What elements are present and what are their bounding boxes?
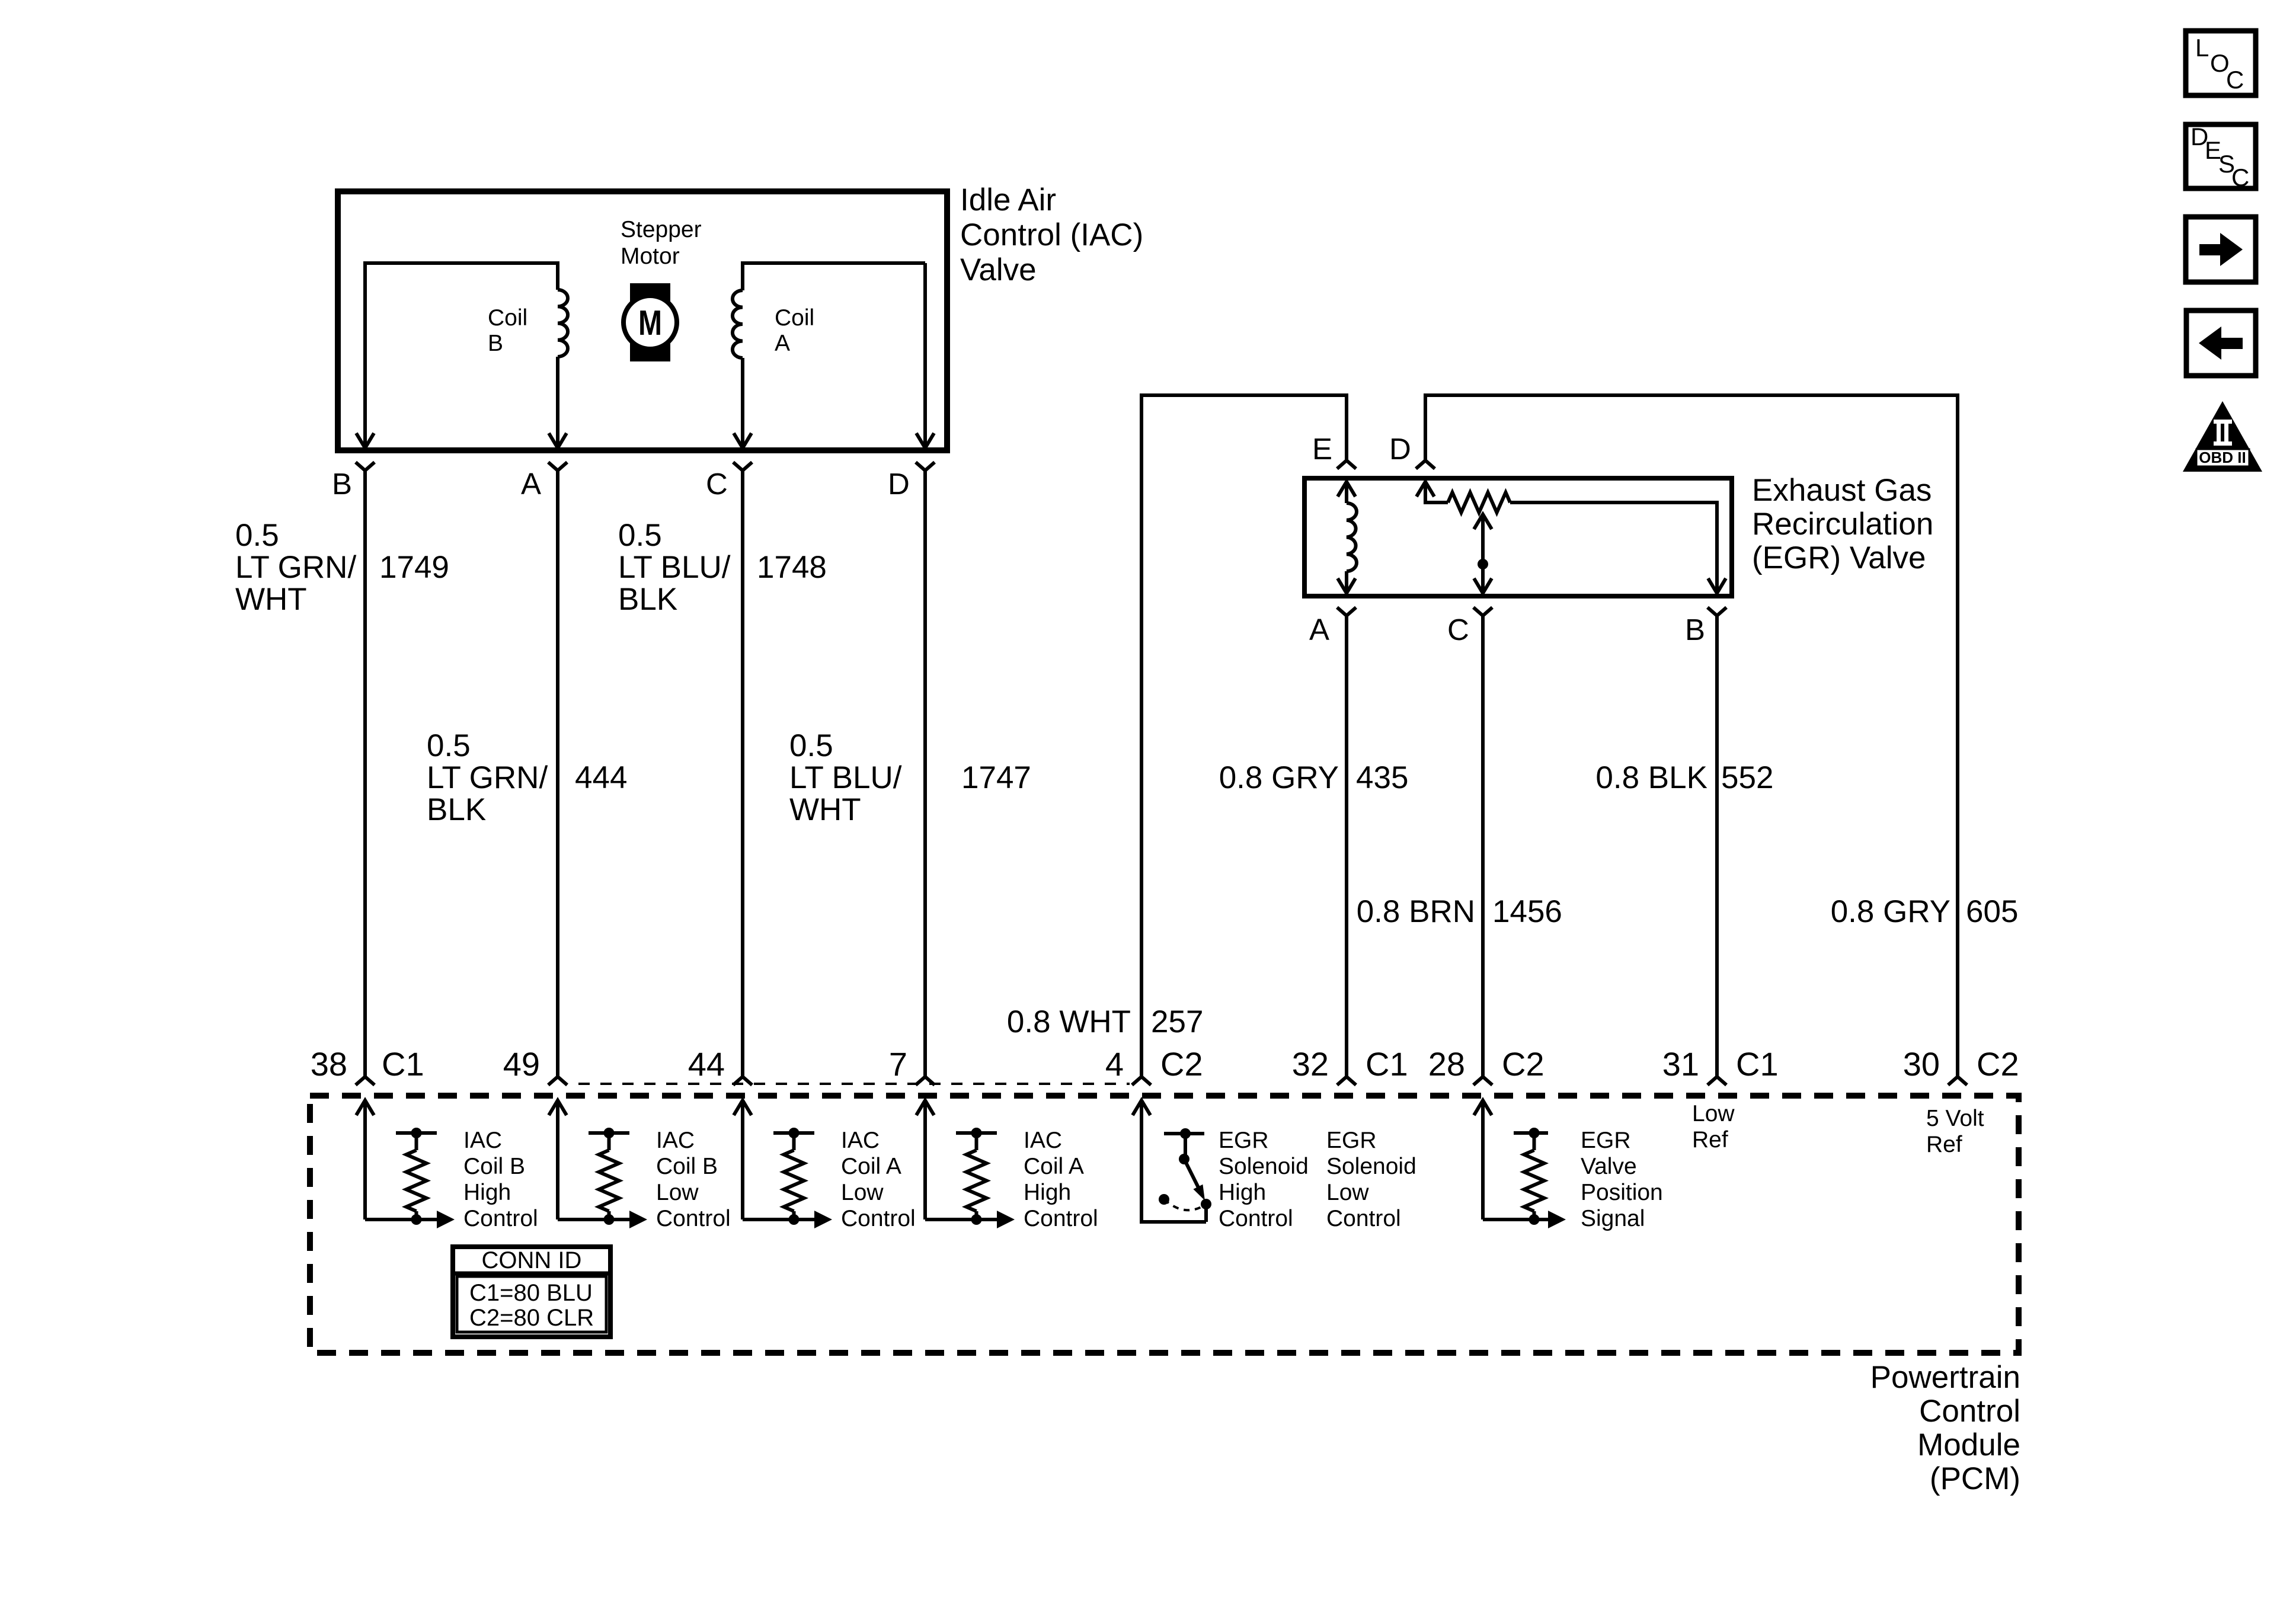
svg-text:0.5: 0.5 (427, 728, 471, 763)
svg-text:A: A (775, 331, 790, 356)
svg-text:Solenoid: Solenoid (1326, 1154, 1416, 1179)
svg-text:0.8 WHT: 0.8 WHT (1007, 1004, 1131, 1039)
stepper motor M symbol (623, 283, 677, 361)
svg-text:38: 38 (311, 1045, 347, 1083)
PCM dashed box (310, 1096, 2019, 1353)
back arrow icon box (2186, 311, 2256, 376)
junction dot (stub) (1180, 1128, 1191, 1139)
wire: wiper to pin C (1481, 514, 1485, 593)
svg-text:WHT: WHT (789, 792, 861, 827)
svg-text:30: 30 (1903, 1045, 1940, 1083)
wire label 0.5 LT BLU/WHT (circuit 1747) (789, 728, 902, 827)
svg-text:0.8 GRY: 0.8 GRY (1831, 894, 1950, 929)
svg-text:LT BLU/: LT BLU/ (618, 550, 731, 585)
wire from EGR pin A down to PCM (1345, 616, 1348, 1077)
IAC valve box (338, 191, 947, 450)
switch alternate contact dot (1159, 1194, 1169, 1205)
svg-text:Control: Control (841, 1206, 916, 1231)
svg-text:31: 31 (1662, 1045, 1699, 1083)
resistor (EGR valve position) (1514, 1131, 1548, 1135)
svg-text:1748: 1748 (757, 550, 827, 585)
svg-text:High: High (463, 1180, 511, 1205)
connector at PCM (C wire) (1473, 1077, 1483, 1085)
connector at PCM pin 4 (1132, 1077, 1141, 1085)
svg-text:C: C (2231, 164, 2249, 191)
junction dot top (IAC coil B high) (411, 1128, 422, 1138)
svg-text:0.8 GRY: 0.8 GRY (1219, 760, 1339, 795)
wire inside PCM from pin (923, 1100, 927, 1219)
svg-text:BLK: BLK (618, 582, 677, 617)
EGR valve box (1304, 478, 1732, 596)
wire: pin 30 vertical run (1956, 395, 1959, 1077)
svg-text:WHT: WHT (235, 582, 307, 617)
wire: D stem to potentiometer (1424, 482, 1427, 502)
svg-text:0.8 BRN: 0.8 BRN (1357, 894, 1475, 929)
svg-text:C2: C2 (1502, 1045, 1544, 1083)
svg-text:Control: Control (1326, 1206, 1401, 1231)
svg-text:Coil: Coil (488, 305, 527, 331)
wire A vertical run (556, 470, 559, 1077)
resistor (IAC coil A low) (773, 1131, 814, 1135)
svg-text:M: M (638, 303, 662, 343)
svg-text:Low: Low (1326, 1180, 1369, 1205)
wire from EGR pin C down to PCM (1481, 616, 1485, 1077)
wire label 0.5 LT BLU/BLK (circuit 1748) (618, 518, 731, 617)
svg-text:Powertrain: Powertrain (1870, 1360, 2020, 1395)
svg-text:A: A (1309, 613, 1329, 646)
connector at PCM pin (D wire) (916, 1077, 925, 1085)
svg-text:257: 257 (1151, 1004, 1203, 1039)
svg-text:Ref: Ref (1692, 1127, 1728, 1153)
svg-text:Control: Control (1919, 1394, 2020, 1429)
svg-text:IAC: IAC (463, 1128, 502, 1153)
svg-text:B: B (488, 331, 503, 356)
junction dot bottom (IAC coil B low) (604, 1214, 615, 1225)
label Idle Air Control (IAC) Valve (960, 183, 1143, 287)
svg-text:Valve: Valve (960, 252, 1037, 287)
switch pivot dot (1179, 1154, 1189, 1164)
connector EGR pin D (1416, 460, 1425, 469)
svg-text:EGR: EGR (1581, 1128, 1631, 1153)
wire: EGR pin D drop (1424, 395, 1427, 460)
wire: coil B loop top (363, 261, 559, 265)
label Coil A (775, 305, 814, 356)
label Coil B (488, 305, 527, 356)
output arrow (IAC coil B high) (437, 1211, 455, 1228)
svg-text:5 Volt: 5 Volt (1926, 1106, 1984, 1131)
switch arm with arrowhead (1184, 1159, 1198, 1188)
svg-text:(PCM): (PCM) (1930, 1461, 2020, 1496)
svg-text:C1: C1 (382, 1045, 424, 1083)
svg-text:1749: 1749 (379, 550, 449, 585)
junction dot bottom (IAC coil B high) (411, 1214, 422, 1225)
junction dot top (EGR valve position) (1529, 1128, 1540, 1138)
svg-text:Coil B: Coil B (463, 1154, 525, 1179)
svg-text:D: D (888, 467, 910, 501)
svg-text:BLK: BLK (427, 792, 486, 827)
DESC icon box (2186, 123, 2256, 191)
wire: coil A loop top (741, 261, 925, 265)
svg-text:4: 4 (1105, 1045, 1124, 1083)
svg-text:0.5: 0.5 (235, 518, 279, 553)
switch moving contact dot (1201, 1199, 1211, 1209)
connector pin C below IAC box (733, 462, 743, 470)
svg-text:Stepper: Stepper (621, 217, 702, 242)
junction dot bottom (EGR valve position) (1529, 1214, 1540, 1225)
wire C inside IAC box (741, 358, 744, 447)
junction dot top (IAC coil A high) (971, 1128, 982, 1138)
svg-text:7: 7 (889, 1045, 907, 1083)
OBD II icon triangle (2183, 401, 2262, 472)
arrow into PCM (pin wire 616) (356, 1100, 374, 1115)
svg-text:D: D (1389, 432, 1411, 466)
resistor (IAC coil B low) (589, 1131, 629, 1135)
connector at PCM (A wire) (1337, 1077, 1347, 1085)
wire label 0.5 LT GRN/WHT (circuit 1749) (235, 518, 356, 617)
label Powertrain Control Module (PCM) (1870, 1360, 2020, 1496)
svg-text:LT GRN/: LT GRN/ (427, 760, 548, 795)
svg-text:Low: Low (1692, 1101, 1735, 1126)
coil A (IAC) (741, 263, 744, 290)
svg-text:CONN ID: CONN ID (482, 1247, 582, 1273)
wire A inside IAC box (556, 357, 559, 447)
wire inside PCM from pin (1481, 1100, 1485, 1219)
svg-text:C2: C2 (1160, 1045, 1203, 1083)
connector pin B below IAC box (356, 462, 365, 470)
svg-text:Ref: Ref (1926, 1132, 1962, 1157)
connector at PCM pin (B wire) (356, 1077, 365, 1085)
arrow into PCM (pin wire 1561) (916, 1100, 934, 1115)
svg-text:LT BLU/: LT BLU/ (789, 760, 902, 795)
svg-text:C1: C1 (1366, 1045, 1408, 1083)
svg-text:Recirculation: Recirculation (1752, 507, 1933, 542)
wire D vertical run (923, 470, 927, 1077)
CONN ID table (450, 1247, 613, 1337)
svg-text:Control: Control (463, 1206, 538, 1231)
resistor (IAC coil A high) (956, 1131, 997, 1135)
junction dot top (IAC coil A low) (789, 1128, 800, 1138)
svg-text:IAC: IAC (656, 1128, 695, 1153)
svg-text:Valve: Valve (1581, 1154, 1637, 1179)
output arrow (IAC coil B low) (629, 1211, 647, 1228)
svg-text:605: 605 (1966, 894, 2018, 929)
arrow into PCM (pin wire 941) (549, 1100, 567, 1115)
connector at PCM pin (C wire) (733, 1077, 743, 1085)
wire D inside IAC box (923, 263, 927, 447)
svg-text:Coil A: Coil A (1024, 1154, 1084, 1179)
svg-text:44: 44 (688, 1045, 725, 1083)
junction dot bottom (IAC coil A low) (789, 1214, 800, 1225)
connector EGR pin A below box (1337, 607, 1347, 616)
svg-text:LT GRN/: LT GRN/ (235, 550, 356, 585)
svg-text:435: 435 (1356, 760, 1408, 795)
svg-text:0.5: 0.5 (789, 728, 833, 763)
svg-text:Coil B: Coil B (656, 1154, 718, 1179)
svg-text:32: 32 (1292, 1045, 1329, 1083)
wire B inside IAC box (363, 263, 367, 447)
svg-text:High: High (1219, 1180, 1266, 1205)
svg-text:Exhaust Gas: Exhaust Gas (1752, 473, 1932, 508)
svg-text:OBD II: OBD II (2199, 449, 2246, 466)
svg-text:A: A (521, 467, 541, 501)
svg-text:C: C (1447, 613, 1469, 646)
svg-text:Module: Module (1917, 1427, 2020, 1462)
svg-text:Control: Control (1024, 1206, 1098, 1231)
wire C vertical run (741, 470, 744, 1077)
output arrow (IAC coil A low) (814, 1211, 832, 1228)
svg-text:1456: 1456 (1492, 894, 1562, 929)
svg-text:Solenoid: Solenoid (1219, 1154, 1309, 1179)
connector-row thin dashed line (578, 1083, 1130, 1085)
EGR position sensor potentiometer (1448, 492, 1510, 513)
arrow at EGR pin A (inside) (1338, 578, 1355, 593)
svg-text:IAC: IAC (841, 1128, 880, 1153)
arrow at EGR pin C (inside) (1474, 578, 1492, 593)
arrow at IAC pin C (734, 433, 752, 448)
wire: pin4 vertical run (1140, 395, 1143, 1077)
connector at PCM (B wire) (1707, 1077, 1717, 1085)
svg-text:Coil: Coil (775, 305, 814, 331)
arrow into EGR pin E (1338, 482, 1355, 497)
svg-text:L: L (2195, 34, 2209, 62)
arrow at EGR pin B (inside) (1708, 578, 1726, 593)
wire: potentiometer to pin B (1510, 501, 1719, 504)
svg-text:Low: Low (656, 1180, 699, 1205)
connector at PCM pin (A wire) (548, 1077, 558, 1085)
svg-text:C2=80 CLR: C2=80 CLR (469, 1305, 594, 1331)
junction dot on wiper wire (1478, 559, 1488, 569)
connector pin D below IAC box (916, 462, 925, 470)
svg-text:Signal: Signal (1581, 1206, 1645, 1231)
svg-text:Idle Air: Idle Air (960, 183, 1056, 217)
svg-text:Motor: Motor (621, 244, 680, 269)
potentiometer wiper arrow (1474, 514, 1492, 529)
svg-text:IAC: IAC (1024, 1128, 1062, 1153)
svg-text:EGR: EGR (1326, 1128, 1377, 1153)
svg-text:Control (IAC): Control (IAC) (960, 217, 1143, 252)
EGR solenoid high control switch (pin 4) (1133, 1100, 1211, 1222)
arrow into PCM (pin wire 1253) (734, 1100, 752, 1115)
svg-text:C2: C2 (1977, 1045, 2019, 1083)
wire label 0.5 LT GRN/BLK (circuit 444) (427, 728, 548, 827)
coil B (IAC) (556, 263, 559, 290)
svg-text:B: B (1685, 613, 1705, 646)
label Stepper Motor (621, 217, 702, 269)
forward arrow icon box (2186, 217, 2256, 282)
svg-text:1747: 1747 (961, 760, 1031, 795)
svg-text:C1=80 BLU: C1=80 BLU (469, 1280, 593, 1306)
label Exhaust Gas Recirculation (EGR) Valve (1752, 473, 1933, 575)
arrow at IAC pin B (356, 433, 374, 448)
connector at PCM pin 30 (1948, 1077, 1958, 1085)
wire inside PCM from pin (741, 1100, 744, 1219)
svg-text:Low: Low (841, 1180, 884, 1205)
connector EGR pin C below box (1473, 607, 1483, 616)
svg-text:(EGR) Valve: (EGR) Valve (1752, 540, 1926, 575)
arrow into EGR pin D (1416, 482, 1434, 497)
switch top stub (1164, 1132, 1204, 1135)
svg-text:444: 444 (575, 760, 627, 795)
svg-text:EGR: EGR (1219, 1128, 1269, 1153)
svg-text:C: C (2226, 66, 2244, 94)
resistor (IAC coil B high) (396, 1131, 437, 1135)
svg-text:28: 28 (1428, 1045, 1465, 1083)
EGR solenoid coil (1345, 482, 1348, 503)
junction dot top (IAC coil B low) (604, 1128, 615, 1138)
svg-text:49: 49 (503, 1045, 540, 1083)
wire inside PCM from pin (556, 1100, 559, 1219)
wire: 5 volt ref top run (pin D to pin 30) (1424, 393, 1959, 397)
svg-text:Control: Control (656, 1206, 731, 1231)
svg-text:Coil A: Coil A (841, 1154, 901, 1179)
wire: EGR high control top run (to pin E) (1140, 393, 1348, 397)
arrow into PCM (pin wire 2502) (1474, 1100, 1492, 1115)
wire from EGR pin B down to PCM (1715, 616, 1719, 1077)
wire: EGR pin E drop (1345, 395, 1348, 460)
arrow at IAC pin A (549, 433, 567, 448)
svg-text:E: E (1312, 432, 1332, 466)
connector EGR pin E (1337, 460, 1347, 469)
switch travel dashed arc (1164, 1199, 1206, 1210)
wire inside PCM from pin (363, 1100, 367, 1219)
svg-text:Control: Control (1219, 1206, 1293, 1231)
LOC icon box (2186, 31, 2256, 95)
svg-text:0.8 BLK: 0.8 BLK (1595, 760, 1707, 795)
svg-text:B: B (332, 467, 352, 501)
svg-text:C1: C1 (1736, 1045, 1779, 1083)
wire B vertical run (363, 470, 367, 1077)
connector pin A below IAC box (548, 462, 558, 470)
svg-text:552: 552 (1721, 760, 1773, 795)
output arrow (IAC coil A high) (997, 1211, 1015, 1228)
svg-text:Position: Position (1581, 1180, 1663, 1205)
svg-text:0.5: 0.5 (618, 518, 662, 553)
junction dot bottom (IAC coil A high) (971, 1214, 982, 1225)
arrow at IAC pin D (916, 433, 934, 448)
output arrow (EGR valve position) (1548, 1211, 1566, 1228)
svg-text:High: High (1024, 1180, 1071, 1205)
connector EGR pin B below box (1707, 607, 1717, 616)
svg-text:C: C (706, 467, 728, 501)
